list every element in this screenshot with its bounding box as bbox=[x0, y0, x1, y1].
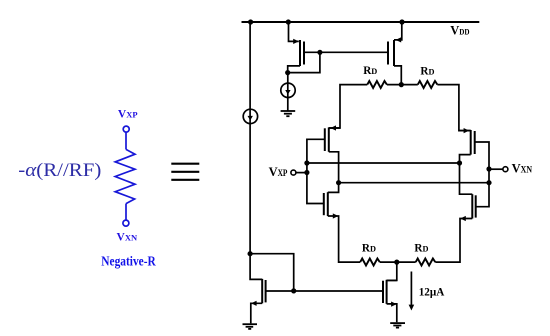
wire gate line M5-M6 bbox=[266, 290, 383, 292]
svg-text:VDD: VDD bbox=[450, 23, 469, 37]
node VXN terminal (circuit) bbox=[503, 167, 508, 172]
node lower cross right bbox=[486, 180, 491, 185]
wire VXP lead bbox=[296, 172, 307, 174]
transistor M4r (lower-right cross-coupled NMOS) bbox=[435, 194, 475, 262]
wire M1 drain to current source bbox=[287, 73, 289, 111]
transistor M3 (upper-left cross-coupled PMOS) bbox=[325, 125, 340, 151]
transistor M5 (bottom-left NMOS mirror) bbox=[250, 254, 266, 324]
transistor M4 (lower-left cross-coupled NMOS) bbox=[324, 192, 360, 262]
node bottom resistor junction bbox=[394, 260, 399, 265]
wire M3r drain to M4r drain bbox=[460, 155, 473, 195]
node lower cross left bbox=[336, 180, 341, 185]
svg-text:VXN: VXN bbox=[117, 232, 138, 244]
wire lower cross line bbox=[339, 182, 489, 184]
transistor M1 (top-left PMOS, diode-connected) bbox=[288, 21, 304, 73]
svg-text:Negative-R: Negative-R bbox=[101, 253, 156, 268]
wire bottom row to M6 drain bbox=[387, 262, 397, 280]
wire top resistor row left segment bbox=[329, 85, 368, 128]
svg-text:RD: RD bbox=[362, 243, 376, 255]
node VXP terminal circle (left panel) bbox=[123, 126, 129, 132]
wire between top resistors bbox=[387, 84, 418, 86]
wire M1 diode connection bbox=[288, 52, 320, 72]
svg-text:VXP: VXP bbox=[269, 165, 288, 179]
transistor M3r (upper-right cross-coupled PMOS) bbox=[459, 128, 475, 155]
node upper cross right bbox=[457, 160, 462, 165]
wire VXN lead bbox=[489, 168, 503, 170]
wire M1 gate to M2 gate bbox=[304, 51, 387, 53]
node VXN junction bbox=[486, 166, 491, 171]
wire M5 diode connection bbox=[250, 254, 294, 291]
node M5 gate junction bbox=[291, 288, 296, 293]
node rail-M1 junction bbox=[286, 19, 291, 24]
node VXN terminal circle (left panel) bbox=[123, 220, 129, 226]
node upper cross left bbox=[304, 160, 309, 165]
wire between bottom resistors bbox=[380, 261, 416, 263]
svg-text:12μA: 12μA bbox=[419, 286, 445, 298]
wire M3 drain to M4 drain bbox=[328, 152, 339, 193]
resistor RD (bottom-left) bbox=[360, 259, 380, 266]
svg-text:-α(R//RF): -α(R//RF) bbox=[18, 160, 101, 181]
svg-text:RD: RD bbox=[363, 65, 377, 77]
resistor RD (top-right) bbox=[418, 81, 438, 88]
wire top resistor row right segment bbox=[437, 85, 470, 131]
ground (under M6) bbox=[390, 323, 405, 328]
wire left rail upper bbox=[249, 22, 251, 254]
wire bbox=[125, 204, 127, 221]
node top resistor junction bbox=[399, 82, 404, 87]
resistor RD (bottom-right) bbox=[416, 259, 436, 266]
current arrow 12uA bbox=[409, 272, 415, 311]
svg-text:RD: RD bbox=[420, 65, 434, 77]
wire upper cross line bbox=[307, 162, 460, 164]
equivalence symbol bbox=[171, 164, 199, 180]
wire VDD rail bbox=[242, 21, 480, 23]
ground (under M5) bbox=[243, 324, 258, 329]
svg-text:VXP: VXP bbox=[118, 109, 138, 121]
node rail-M2 junction bbox=[399, 19, 404, 24]
node rail-left junction bbox=[248, 19, 253, 24]
current source I2 bbox=[281, 83, 295, 97]
transistor M6 (bottom-right NMOS tail) bbox=[383, 280, 397, 322]
wire left gate line bbox=[307, 139, 325, 203]
transistor M2 (top-right PMOS) bbox=[388, 22, 402, 85]
node VXP junction bbox=[304, 170, 309, 175]
wire right gate line bbox=[475, 142, 489, 207]
node M5 drain junction bbox=[248, 251, 253, 256]
wire bbox=[125, 132, 127, 149]
node M1 drain junction bbox=[285, 70, 290, 75]
resistor R (negative-R cell) bbox=[115, 149, 135, 203]
svg-text:VXN: VXN bbox=[512, 162, 533, 176]
resistor RD (top-left) bbox=[367, 81, 387, 88]
ground (under I2) bbox=[281, 111, 296, 116]
node M1 gate junction bbox=[317, 50, 322, 55]
svg-text:RD: RD bbox=[414, 242, 428, 254]
current source I1 bbox=[243, 109, 257, 123]
node VXP terminal (circuit) bbox=[291, 170, 296, 175]
